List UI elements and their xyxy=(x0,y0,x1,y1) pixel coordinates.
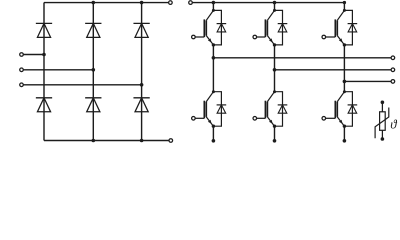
svg-text:ϑ: ϑ xyxy=(390,116,397,131)
